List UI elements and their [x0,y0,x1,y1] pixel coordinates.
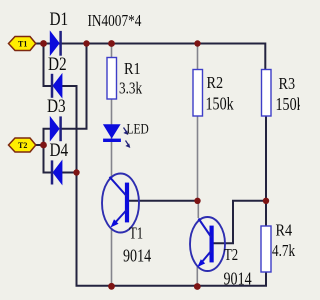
svg-text:T2: T2 [224,245,238,264]
svg-text:D1: D1 [50,9,69,30]
wire T2 node vertical D3 anode to D4 cathode [44,129,53,173]
diode D3 [50,116,60,141]
wire branch R3 bottom to T2 base [213,201,266,243]
junction dots [40,40,47,47]
wire T2 collector stub (grey) [197,201,199,218]
wire R1 top stub (grey) [111,44,113,59]
wire top positive rail [35,44,265,71]
svg-text:R2: R2 [207,74,224,92]
svg-text:9014: 9014 [123,247,151,266]
resistor R1 [107,58,117,100]
svg-text:T1: T1 [129,224,143,243]
diode D2 [52,74,62,98]
diode D1 [50,31,60,56]
svg-text:D4: D4 [50,140,69,161]
svg-text:150k: 150k [206,95,235,114]
wire D2 anode down negative column, bottom rail, up to R4 [61,86,266,286]
svg-text:LED: LED [127,120,150,137]
wire R3 bottom column [265,116,267,201]
wire D3 cathode riser to top rail [61,44,87,129]
resistor R3 [262,70,272,117]
wire R1 bottom to LED to T1 collector (grey) [111,99,113,177]
transistor T1 [102,174,139,233]
wire T2 terminal stub [34,144,44,146]
resistor R4 [261,226,271,272]
wire R2 bottom to node (grey) [197,116,199,200]
terminal T2 [9,138,36,152]
diode D4 [52,160,62,184]
svg-text:3.3k: 3.3k [119,79,142,98]
svg-text:R3: R3 [279,75,296,93]
svg-text:R1: R1 [124,60,141,78]
wire T1 terminal stub [34,43,44,45]
wire T1 base lead to node [127,200,198,202]
svg-text:T1: T1 [18,39,27,48]
svg-text:IN4007*4: IN4007*4 [88,13,142,31]
LED D5 [104,125,131,148]
wire R2 top stub (grey) [197,44,199,71]
svg-text:D2: D2 [48,54,67,75]
svg-text:9014: 9014 [224,270,252,289]
wire T2 emitter to bottom rail (grey) [196,266,198,287]
terminal T1 [9,37,36,51]
svg-text:150k: 150k [276,96,301,115]
wire R4 top stub [265,201,267,227]
wire T1 emitter to bottom rail (grey) [111,228,113,286]
svg-text:D3: D3 [47,96,66,117]
wire D4 anode to negative column [61,172,77,174]
svg-text:T2: T2 [18,141,27,150]
wire T1 node vertical to D2 cathode [44,44,53,87]
svg-text:R4: R4 [276,221,293,239]
transistor T2 [190,217,225,271]
resistor R2 [193,70,203,117]
svg-text:4.7k: 4.7k [272,241,295,260]
